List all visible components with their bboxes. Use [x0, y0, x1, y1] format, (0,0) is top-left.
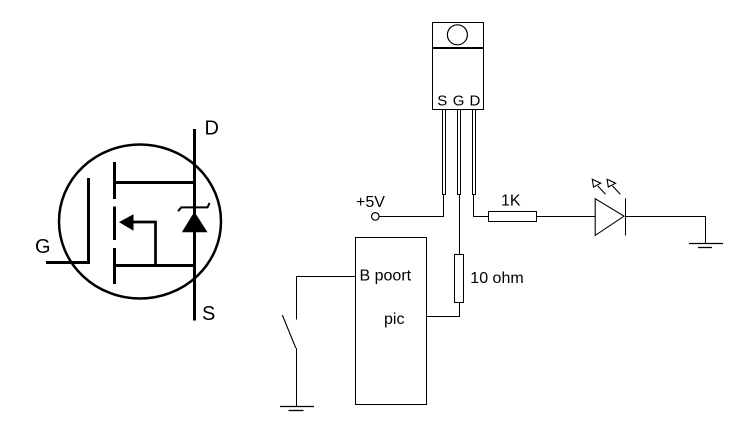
- package leg S: [443, 110, 446, 195]
- svg-text:B poort: B poort: [360, 268, 412, 285]
- svg-text:D: D: [205, 118, 219, 140]
- svg-text:G: G: [35, 236, 51, 258]
- LED D2 triangle: [595, 199, 624, 236]
- ground right: [689, 244, 723, 248]
- LED cathode bar: [625, 198, 627, 235]
- gate electrode bar: [87, 178, 90, 264]
- channel segment bottom: [113, 248, 116, 284]
- body arrow: [119, 214, 134, 231]
- body arrow tail wire: [133, 222, 156, 266]
- drain bar: [113, 181, 196, 184]
- +5V terminal circle: [372, 213, 380, 221]
- LED light arrow 2: [607, 179, 620, 194]
- svg-text:G: G: [453, 93, 465, 110]
- wire D leg to resistor R1: [474, 216, 489, 218]
- svg-text:1K: 1K: [501, 193, 521, 210]
- channel segment middle: [113, 207, 116, 241]
- svg-text:10 ohm: 10 ohm: [470, 270, 523, 287]
- resistor R1 1K body: [489, 212, 537, 222]
- pic box U2 outline: [356, 238, 427, 405]
- source bar: [113, 264, 196, 267]
- resistor R2 10 ohm body: [455, 255, 464, 303]
- wire D leg down: [473, 195, 475, 218]
- MOSFET symbol Q1 body circle: [59, 145, 221, 299]
- wire down to switch: [296, 277, 298, 320]
- svg-text:D: D: [470, 93, 481, 110]
- wire +5V to S leg: [380, 216, 445, 218]
- wire G leg down: [459, 195, 461, 256]
- wire switch to ground: [296, 348, 298, 407]
- wire resistor bottom to pic box: [427, 303, 460, 317]
- switch SW1 blade: [282, 315, 296, 348]
- wire switch to pic box: [296, 276, 356, 278]
- body diode D1 (zener) triangle: [182, 212, 208, 232]
- svg-text:S: S: [437, 93, 447, 110]
- channel segment top: [113, 162, 116, 199]
- wire S leg down: [443, 195, 445, 217]
- package tab separator line: [432, 47, 484, 49]
- body diode cathode bar: [178, 203, 210, 211]
- wire resistor R1 to LED: [537, 216, 596, 218]
- svg-text:S: S: [202, 303, 215, 325]
- LED light arrow 1: [592, 179, 605, 194]
- gate lead wire: [46, 261, 90, 264]
- svg-text:pic: pic: [384, 311, 404, 328]
- wire LED to ground: [626, 217, 706, 244]
- svg-text:+5V: +5V: [356, 194, 385, 211]
- package leg D: [473, 110, 476, 195]
- drain-source line: [193, 129, 196, 321]
- transistor package U1 outline: [433, 23, 484, 110]
- ground left: [280, 407, 314, 411]
- package leg G: [458, 110, 461, 195]
- package mounting hole: [447, 25, 467, 45]
